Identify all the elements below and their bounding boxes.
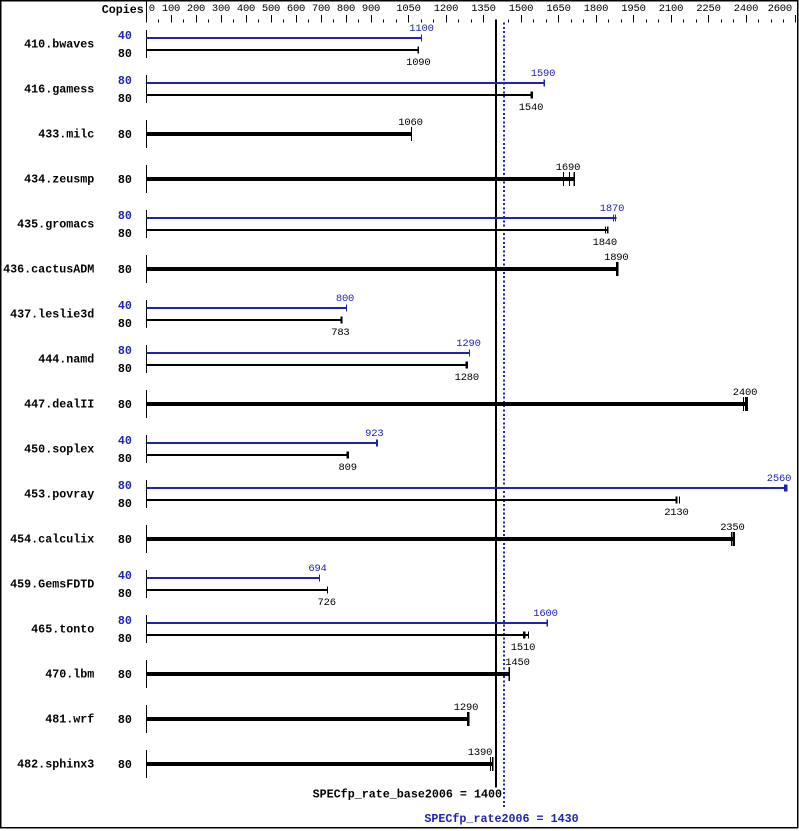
svg-text:447.dealII: 447.dealII <box>24 398 94 412</box>
svg-text:1050: 1050 <box>396 3 420 15</box>
svg-text:416.gamess: 416.gamess <box>24 83 94 97</box>
svg-text:1840: 1840 <box>593 237 617 249</box>
svg-text:1540: 1540 <box>519 102 543 114</box>
svg-text:1600: 1600 <box>533 608 557 620</box>
svg-text:1800: 1800 <box>584 3 608 15</box>
svg-text:80: 80 <box>118 632 132 646</box>
svg-text:1450: 1450 <box>505 657 529 669</box>
svg-text:40: 40 <box>118 569 132 583</box>
SPECfp_rate2006 reference line (1430, dotted) <box>503 23 505 808</box>
svg-text:80: 80 <box>118 713 132 727</box>
svg-text:SPECfp_rate_base2006 = 1400: SPECfp_rate_base2006 = 1400 <box>313 788 502 802</box>
svg-text:40: 40 <box>118 299 132 313</box>
svg-text:1350: 1350 <box>471 3 495 15</box>
svg-text:2100: 2100 <box>659 3 683 15</box>
SPECfp_rate_base2006 reference line (1400) <box>495 19 497 787</box>
svg-text:80: 80 <box>118 227 132 241</box>
svg-text:600: 600 <box>287 3 305 15</box>
svg-text:444.namd: 444.namd <box>38 353 94 367</box>
svg-text:1390: 1390 <box>468 747 492 759</box>
svg-text:80: 80 <box>118 758 132 772</box>
svg-text:2130: 2130 <box>664 507 688 519</box>
svg-text:80: 80 <box>118 479 132 493</box>
svg-text:2400: 2400 <box>733 387 757 399</box>
svg-text:200: 200 <box>187 3 205 15</box>
svg-text:1510: 1510 <box>511 642 535 654</box>
svg-text:470.lbm: 470.lbm <box>45 668 94 682</box>
svg-text:923: 923 <box>365 428 383 440</box>
svg-text:1870: 1870 <box>600 203 624 215</box>
svg-text:435.gromacs: 435.gromacs <box>17 218 94 232</box>
svg-text:2350: 2350 <box>720 522 744 534</box>
svg-text:SPECfp_rate2006 = 1430: SPECfp_rate2006 = 1430 <box>424 812 578 826</box>
svg-text:2600: 2600 <box>768 3 792 15</box>
svg-text:Copies: Copies <box>102 3 144 17</box>
svg-text:1290: 1290 <box>454 702 478 714</box>
svg-text:465.tonto: 465.tonto <box>31 623 94 637</box>
axis tick marks <box>171 15 172 23</box>
svg-text:783: 783 <box>331 327 349 339</box>
svg-text:80: 80 <box>118 452 132 466</box>
svg-text:1200: 1200 <box>434 3 458 15</box>
svg-text:400: 400 <box>237 3 255 15</box>
svg-text:100: 100 <box>162 3 180 15</box>
svg-text:1060: 1060 <box>398 117 422 129</box>
svg-text:1100: 1100 <box>409 23 433 35</box>
svg-text:482.sphinx3: 482.sphinx3 <box>17 758 94 772</box>
svg-text:300: 300 <box>212 3 230 15</box>
svg-text:80: 80 <box>118 362 132 376</box>
svg-text:450.soplex: 450.soplex <box>24 443 94 457</box>
svg-text:481.wrf: 481.wrf <box>45 713 94 727</box>
svg-text:80: 80 <box>118 263 132 277</box>
svg-text:80: 80 <box>118 587 132 601</box>
svg-text:80: 80 <box>118 74 132 88</box>
svg-text:1290: 1290 <box>456 338 480 350</box>
svg-text:433.milc: 433.milc <box>38 128 94 142</box>
svg-text:900: 900 <box>362 3 380 15</box>
svg-text:1500: 1500 <box>509 3 533 15</box>
svg-text:80: 80 <box>118 92 132 106</box>
svg-text:80: 80 <box>118 128 132 142</box>
svg-text:40: 40 <box>118 29 132 43</box>
svg-text:80: 80 <box>118 497 132 511</box>
svg-text:436.cactusADM: 436.cactusADM <box>3 263 94 277</box>
svg-text:800: 800 <box>336 293 354 305</box>
svg-text:2400: 2400 <box>734 3 758 15</box>
svg-text:80: 80 <box>118 344 132 358</box>
svg-text:434.zeusmp: 434.zeusmp <box>24 173 94 187</box>
svg-text:410.bwaves: 410.bwaves <box>24 38 94 52</box>
svg-text:2250: 2250 <box>696 3 720 15</box>
svg-text:700: 700 <box>312 3 330 15</box>
svg-text:800: 800 <box>337 3 355 15</box>
svg-text:80: 80 <box>118 533 132 547</box>
svg-text:1890: 1890 <box>604 252 628 264</box>
svg-text:459.GemsFDTD: 459.GemsFDTD <box>10 578 94 592</box>
svg-text:453.povray: 453.povray <box>24 488 94 502</box>
svg-text:1950: 1950 <box>621 3 645 15</box>
svg-text:1280: 1280 <box>455 372 479 384</box>
svg-text:1650: 1650 <box>546 3 570 15</box>
svg-text:1090: 1090 <box>406 57 430 69</box>
svg-text:809: 809 <box>339 462 357 474</box>
svg-text:80: 80 <box>118 614 132 628</box>
svg-text:454.calculix: 454.calculix <box>10 533 94 547</box>
svg-text:437.leslie3d: 437.leslie3d <box>10 308 94 322</box>
svg-text:80: 80 <box>118 668 132 682</box>
svg-text:40: 40 <box>118 434 132 448</box>
svg-text:80: 80 <box>118 173 132 187</box>
axis vertical line at 0 <box>146 1 147 23</box>
svg-text:80: 80 <box>118 209 132 223</box>
svg-text:80: 80 <box>118 47 132 61</box>
svg-text:2560: 2560 <box>767 473 791 485</box>
svg-text:726: 726 <box>318 597 336 609</box>
svg-text:1590: 1590 <box>531 68 555 80</box>
svg-text:500: 500 <box>262 3 280 15</box>
svg-text:694: 694 <box>308 563 326 575</box>
svg-text:1690: 1690 <box>556 162 580 174</box>
svg-text:80: 80 <box>118 398 132 412</box>
svg-text:0: 0 <box>149 3 155 15</box>
svg-text:80: 80 <box>118 317 132 331</box>
